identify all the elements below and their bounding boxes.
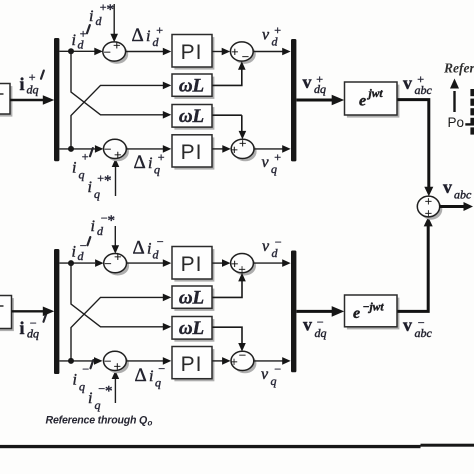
dashed bar at right edge (clipped block border) (470, 89, 474, 135)
svg-text:+: + (425, 206, 432, 221)
svg-text:+: + (231, 44, 238, 59)
svg-text:vabc−: vabc− (403, 315, 433, 340)
wire: e^jwt output right then down into final summer (398, 100, 429, 188)
wire: bar to d+ error junction (60, 50, 96, 52)
junction dot d+ (68, 48, 74, 54)
svg-text:+: + (239, 136, 246, 151)
summing junction S5 (d- error) (104, 249, 129, 275)
block PI (d+ controller) (172, 35, 214, 70)
wire: wL3 output up into S6 bottom (213, 281, 243, 298)
wire: error to PI2 (126, 148, 163, 150)
svg-text:ωL: ωL (179, 288, 204, 309)
wire: v_dq- thick arrow into e^-jwt (297, 310, 335, 313)
svg-text:ωL: ωL (179, 318, 204, 339)
wire: S8 to right bar (v_q-) (254, 360, 283, 362)
wire: i_q+* reference arrow up (115, 166, 117, 196)
svg-text:vq−: vq− (261, 362, 282, 388)
summing junction S9 (v_abc+ + v_abc-) (417, 193, 442, 220)
junction dot q- (68, 358, 74, 364)
svg-text:ωL: ωL (179, 106, 204, 127)
svg-text:vd−: vd− (262, 235, 282, 260)
wire: reference arrow up (right fragment) (453, 91, 455, 112)
block wL (upper decoupling 1) (172, 74, 214, 99)
combiner bar (negative v_dq) (291, 251, 296, 373)
svg-text:vdq−: vdq− (303, 315, 327, 341)
svg-text:idq+: idq+ (20, 70, 39, 97)
svg-text:id+*: id+* (89, 0, 114, 28)
svg-text:idq−: idq− (20, 316, 40, 341)
svg-text:+: + (114, 147, 121, 162)
svg-text:Δid−: Δid− (133, 235, 165, 262)
svg-text:−: − (104, 256, 111, 271)
wire: wL2 output down into S4 top (241, 115, 243, 132)
wire: small dash from Po to edge (465, 123, 474, 125)
wire: bar to q- error junction (60, 360, 96, 362)
summing junction S4 (v_q+ output) (231, 136, 257, 162)
wire: i_d-* reference arrow down (114, 226, 116, 246)
wire: PI1 to output junction S2 (213, 51, 224, 53)
svg-text:+: + (230, 354, 237, 369)
wire: error to PI1 (126, 51, 163, 53)
block e^jwt (positive rotation) (345, 82, 400, 118)
svg-text:vabc+: vabc+ (403, 72, 433, 97)
svg-text:−: − (239, 348, 246, 363)
block: positive-seq input (abc-to-dq) box, clipped at left edge (0, 84, 12, 117)
svg-text:PI: PI (181, 41, 203, 64)
wire: error to PI4 (126, 360, 163, 362)
junction dot d- (68, 260, 74, 266)
svg-text:id+: id+ (72, 27, 88, 52)
summing junction S3 (q+ error) (104, 139, 129, 162)
summing junction S1 (d+ error) (103, 38, 128, 64)
svg-text:id−*: id−* (91, 211, 116, 238)
wire: S6 to right bar (v_d-) (254, 262, 284, 264)
svg-text:+: + (231, 256, 238, 271)
wire: i_d+* reference arrow down (113, 4, 115, 34)
svg-text:iq−*: iq−* (88, 382, 113, 413)
svg-text:Δiq−: Δiq− (135, 362, 166, 390)
wire: v_dq+ thick arrow into e^jwt (297, 99, 335, 102)
block wL (upper decoupling 2) (172, 105, 214, 130)
bottom rule line (left segment) (0, 445, 421, 448)
wire: wL1 output up into S2 bottom (213, 69, 242, 85)
svg-text:PI: PI (181, 141, 203, 164)
svg-text:PI: PI (181, 253, 203, 276)
svg-text:iq+: iq+ (72, 150, 89, 182)
wire: cross-coupling q+ to wL1 input (71, 85, 164, 148)
fragment inside clipped lower box (0, 305, 4, 307)
svg-text:Po: Po (448, 115, 465, 130)
wire: PI3 to output junction S6 (213, 262, 224, 264)
svg-text:ωL: ωL (179, 76, 204, 97)
block PI (q+ controller) (172, 135, 214, 170)
block PI (d- controller) (172, 247, 214, 282)
wire: cross-coupling q- to wL3 input (71, 297, 164, 361)
summing junction S8 (v_q- output) (230, 348, 256, 374)
summing junction S2 (v_d+ output) (230, 42, 255, 64)
svg-text:−: − (242, 49, 249, 64)
svg-text:vabc: vabc (443, 177, 472, 202)
block: negative-seq input (abc-to-dq) box, clipped at left edge (0, 296, 14, 332)
junction dot q+ (68, 146, 74, 152)
wire: PI2 to output junction S4 (213, 148, 224, 150)
svg-text:−: − (104, 354, 111, 369)
svg-text:Reference through Qo: Reference through Qo (46, 415, 153, 428)
svg-text:PI: PI (181, 353, 203, 376)
block e^-jwt (negative rotation) (345, 295, 400, 329)
summing junction S6 (v_d- output) (231, 254, 256, 277)
wire: wL4 output down into S8 top (213, 327, 243, 344)
svg-text:id−: id− (72, 239, 88, 264)
svg-text:vd+: vd+ (262, 23, 282, 49)
block PI (q- controller) (172, 347, 214, 382)
wire: e^-jwt output right then up into final summer (398, 225, 429, 311)
wire: cross-coupling d+ to wL2 input (71, 51, 164, 115)
svg-text:+: + (114, 359, 121, 374)
svg-text:vq+: vq+ (262, 150, 282, 176)
svg-text:+: + (231, 142, 238, 157)
wire: error to PI3 (127, 262, 163, 264)
wire: cross-coupling d- to wL4 input (71, 263, 164, 327)
wire: final v_abc output arrow to right edge (440, 205, 464, 208)
svg-text:+: + (113, 38, 120, 53)
svg-text:+: + (114, 249, 121, 264)
wire: i_q-* reference arrow up (114, 378, 116, 403)
svg-text:iq+*: iq+* (88, 171, 112, 201)
svg-text:−: − (104, 142, 111, 157)
wire: PI4 to output junction S8 (213, 360, 224, 362)
wire: S2 to right bar (v_d+) (253, 51, 283, 53)
svg-text:Refer: Refer (443, 61, 474, 76)
svg-text:Δid+: Δid+ (132, 23, 164, 49)
wire: i_dq+ input arrow into splitter bar (10, 99, 45, 101)
combiner bar (positive v_dq) (291, 39, 296, 161)
svg-text:Δiq+: Δiq+ (134, 150, 166, 177)
splitter bar (negative dq) (54, 249, 59, 374)
bottom rule line (right segment) (421, 444, 474, 447)
wire: bar to d- error junction (60, 262, 96, 264)
block wL (lower decoupling 1) (172, 286, 214, 311)
fragment inside clipped box (0, 93, 4, 95)
svg-text:−: − (104, 44, 111, 59)
splitter bar (positive dq) (54, 38, 59, 161)
svg-text:vdq+: vdq+ (303, 72, 327, 96)
wire: i_dq- input arrow into splitter bar (12, 310, 46, 312)
svg-text:iq−: iq− (73, 362, 90, 394)
block wL (lower decoupling 2) (172, 317, 214, 342)
wire: S4 to right bar (v_q+) (254, 148, 283, 150)
wire: bar to q+ error junction (60, 148, 96, 150)
summing junction S7 (q- error) (104, 351, 129, 373)
